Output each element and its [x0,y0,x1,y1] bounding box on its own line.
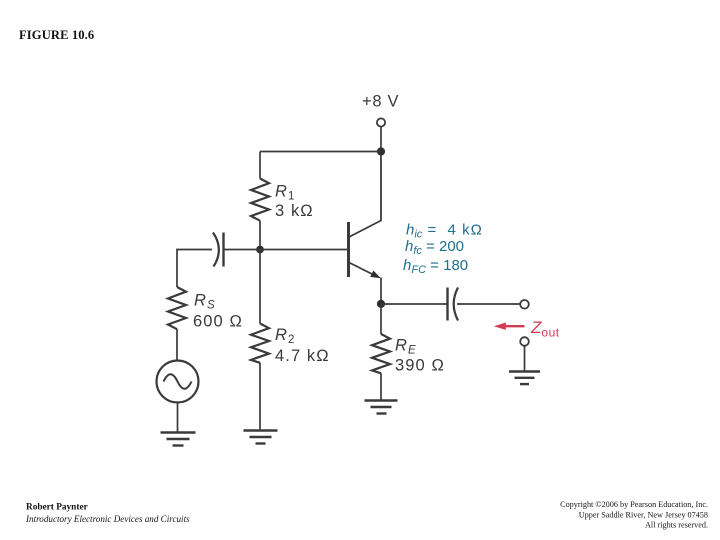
capacitor C1 input curved plate [213,233,219,267]
wire emitter node to capacitor C2 [381,303,448,305]
svg-text:Upper Saddle River, New Jersey: Upper Saddle River, New Jersey 07458 [579,511,708,520]
junction dot emitter node [377,300,385,308]
svg-text:hfc = 200: hfc = 200 [405,238,464,257]
capacitor C1 input straight plate [222,233,224,267]
capacitor C2 output curved plate [454,288,458,321]
wire R1 branch down [259,152,261,179]
wire top rail horizontal to R1 branch [260,151,381,153]
svg-text:R2: R2 [275,326,296,346]
output terminal circle [520,300,529,309]
wire RE to ground [380,373,382,399]
Zout arrow red [503,325,525,327]
resistor RS [168,287,186,329]
svg-text:hFC = 180: hFC = 180 [403,257,468,276]
svg-text:Robert Paynter: Robert Paynter [26,503,88,513]
svg-text:390 Ω: 390 Ω [395,357,445,375]
transistor Q1 emitter lead [349,263,375,276]
junction dot base node [256,246,264,254]
supply terminal circle [377,118,385,126]
wire supply terminal to collector rail junction [380,127,382,148]
ground below R2 [244,431,278,444]
wire emitter node to RE [380,304,382,334]
svg-text:All rights reserved.: All rights reserved. [645,521,708,530]
resistor RE [372,334,390,373]
svg-text:4.7 kΩ: 4.7 kΩ [275,347,330,365]
wire emitter to output node [380,278,382,301]
svg-text:RE: RE [395,337,417,357]
svg-text:FIGURE 10.6: FIGURE 10.6 [19,28,94,42]
resistor R1 [251,179,269,221]
junction dot supply rail [377,147,385,155]
AC source VS circle [157,361,199,403]
AC source sine wave [164,374,192,389]
transistor Q1 base bar [347,222,350,277]
svg-text:R1: R1 [275,183,296,203]
resistor R2 [251,324,269,363]
svg-text:RS: RS [194,292,216,312]
svg-text:+8 V: +8 V [362,93,399,111]
svg-text:600 Ω: 600 Ω [193,313,243,331]
svg-text:Copyright ©2006 by Pearson Edu: Copyright ©2006 by Pearson Education, In… [560,500,708,509]
wire base node to R2 [259,250,261,324]
transistor Q1 emitter arrowhead [370,271,381,279]
wire source branch to capacitor C1 [177,250,212,288]
ground below output terminal [509,372,540,385]
wire source to ground [177,403,179,432]
ground below RE [365,401,398,414]
svg-text:Introductory Electronic Device: Introductory Electronic Devices and Circ… [25,514,190,524]
svg-text:3 kΩ: 3 kΩ [275,202,314,220]
ground below source [161,433,196,446]
transistor Q1 collector lead [349,155,381,237]
wire lower terminal to ground [524,346,526,371]
svg-text:Zout: Zout [530,318,560,340]
wire capacitor C2 to output terminal [457,303,520,305]
wire base node to transistor base [224,249,348,251]
wire RS to source [176,329,178,360]
wire R2 to ground [259,363,261,430]
capacitor C2 output straight plate [446,288,448,321]
lower output terminal circle [520,337,529,346]
wire R1 to base node [259,221,261,246]
